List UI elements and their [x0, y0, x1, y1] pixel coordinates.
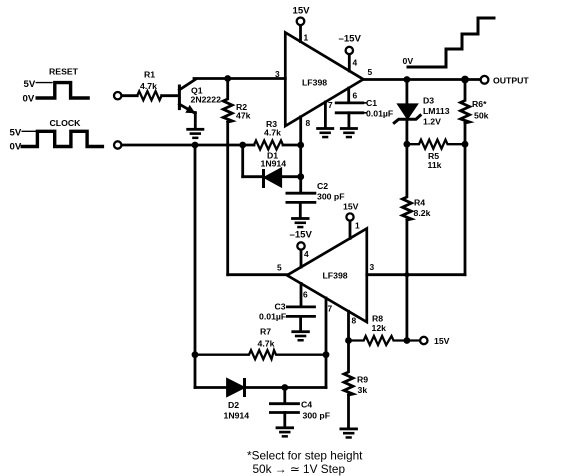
zener D3 bottom lead — [405, 120, 408, 144]
diode D1 1N914 triangle — [266, 169, 281, 186]
terminal: RESET input — [114, 92, 121, 99]
wire: D1 left lead — [243, 175, 262, 178]
node: D2 line / C4 — [281, 384, 288, 391]
terminal: 15V U1 — [297, 18, 305, 26]
terminal: -15V U1 — [346, 47, 353, 54]
capacitor C2 300pF plates — [287, 193, 315, 202]
svg-text:4: 4 — [304, 249, 309, 259]
node: clock / long vertical — [192, 142, 199, 149]
diode D2 1N914 triangle — [228, 380, 244, 396]
wire: C4 top lead — [283, 388, 286, 403]
resistor R5 11k — [407, 140, 465, 149]
svg-text:5V: 5V — [24, 79, 36, 90]
svg-text:0.01µF: 0.01µF — [366, 109, 393, 119]
svg-text:2N2222: 2N2222 — [191, 95, 222, 105]
label dash 0.01uF — [363, 112, 366, 114]
svg-text:8: 8 — [352, 316, 357, 326]
svg-text:CLOCK: CLOCK — [50, 118, 82, 128]
wire: pin8 junction down to D1 and C2 — [299, 145, 302, 192]
node: D3 / R5 — [404, 141, 411, 148]
node: clock / D1 branch — [239, 142, 246, 149]
wire: D2 right lead to U2 pin7 vertical — [246, 386, 326, 389]
capacitor C1 0.01uF plates — [336, 103, 363, 113]
resistor R2 47k vertical — [223, 79, 232, 123]
wire: C2 bottom plate to ground — [299, 202, 302, 217]
svg-text:8.2k: 8.2k — [414, 208, 431, 218]
svg-text:C2: C2 — [317, 181, 328, 191]
transistor Q1 emitter lead — [179, 104, 195, 113]
wire: R9 to ground — [347, 395, 350, 428]
node: output / R6 — [461, 76, 469, 84]
svg-text:R4: R4 — [414, 198, 425, 208]
svg-text:R9: R9 — [357, 375, 368, 385]
svg-text:RESET: RESET — [49, 67, 79, 77]
diode D2 1N914 cathode bar — [243, 380, 246, 396]
staircase output waveform — [408, 18, 494, 67]
wire: U2 pin 7 down through R7 line to D2 line — [325, 298, 328, 388]
wire: C1 bottom plate to ground — [347, 113, 350, 127]
svg-text:300 pF: 300 pF — [317, 192, 345, 202]
wire: C3 bottom plate to ground — [299, 316, 302, 330]
svg-text:1.2V: 1.2V — [423, 117, 441, 127]
wire: U2 pin 3 line to right vertical — [367, 273, 465, 276]
node: R7 right / U2 pin7 — [323, 351, 330, 358]
op-amp U2 LF398 triangle (mirrored) — [287, 229, 367, 323]
wire: top wire Q1 collector to op-amp U1 pin 3 — [194, 77, 285, 80]
zener D3 cathode bar — [394, 115, 420, 122]
ground (R9) — [340, 428, 358, 439]
svg-text:1: 1 — [304, 33, 309, 43]
wire: U1 pin 8 down to clock junction — [299, 117, 302, 145]
terminal: 15V U2 — [346, 213, 353, 220]
svg-text:12k: 12k — [372, 323, 387, 333]
wire: R2 down to op-amp U2 output line (crosses clock line) — [226, 122, 229, 275]
wire: U1 pin 1 from 15V terminal — [299, 26, 302, 41]
wire: U1 output to OUTPUT terminal — [363, 78, 480, 81]
node: U2 pin8 / R8 / R9 — [345, 337, 352, 344]
svg-text:5V: 5V — [10, 128, 22, 139]
wire: U2 pin 4 from -15V terminal — [300, 251, 303, 267]
svg-text:–15V: –15V — [290, 230, 313, 241]
wire: U1 pin 6 to C1 — [347, 88, 350, 102]
wire: U1 pin 7 to ground — [324, 102, 327, 127]
node: R5 / R6 — [462, 141, 469, 148]
svg-text:4.7k: 4.7k — [140, 81, 157, 91]
svg-text:47k: 47k — [236, 111, 251, 121]
svg-text:3: 3 — [275, 69, 280, 79]
node: R8 / R4 vertical — [404, 337, 411, 344]
wire: clock input line — [122, 144, 254, 147]
wire: U2 pin 8 down to R8 line — [347, 311, 350, 340]
svg-text:R7: R7 — [260, 327, 271, 337]
svg-text:0V: 0V — [403, 56, 414, 66]
clock waveform — [22, 131, 102, 146]
diode D1 1N914 cathode bar — [262, 171, 265, 187]
resistor R7 4.7k line — [195, 350, 326, 359]
svg-text:D3: D3 — [423, 96, 434, 106]
svg-text:C4: C4 — [301, 400, 312, 410]
node: output / D3 — [404, 76, 411, 83]
svg-text:C3: C3 — [275, 302, 286, 312]
svg-text:7: 7 — [328, 304, 333, 314]
wire: U2 pin 5 output line to R2 feedback — [228, 273, 287, 276]
svg-text:15V: 15V — [434, 336, 450, 346]
svg-text:1N914: 1N914 — [224, 411, 250, 421]
resistor R9 3k vertical — [344, 341, 353, 396]
wire: U2 pin 6 to C3 — [300, 283, 303, 305]
wire: C4 bottom plate to ground — [283, 413, 286, 427]
wire: R1 to Q1 base — [162, 94, 178, 97]
zener D3 LM113 triangle — [399, 105, 416, 118]
svg-text:300 pF: 300 pF — [303, 411, 331, 421]
ground (C4) — [276, 426, 294, 437]
ground (C2) — [291, 217, 309, 228]
svg-text:1N914: 1N914 — [261, 159, 287, 169]
node: R7 left / long vertical — [192, 351, 199, 358]
transistor Q1 collector lead — [179, 79, 196, 90]
svg-text:50k → ≃ 1V Step: 50k → ≃ 1V Step — [253, 462, 346, 476]
resistor R4 8.2k vertical — [402, 144, 411, 220]
node: junction top wire / R2 — [224, 75, 231, 82]
svg-text:R1: R1 — [144, 70, 155, 80]
reset waveform label 5V line — [36, 82, 52, 84]
terminal: CLOCK input — [114, 141, 121, 148]
transistor Q1 emitter vertical to ground — [194, 113, 197, 129]
node: R3 / U1 pin 8 — [297, 142, 304, 149]
svg-text:7: 7 — [328, 100, 333, 110]
svg-text:0V: 0V — [23, 94, 35, 105]
transistor Q1 emitter arrow — [185, 105, 195, 113]
label dash C1 — [363, 102, 366, 104]
svg-text:11k: 11k — [428, 160, 442, 170]
capacitor C4 300pF plates — [270, 404, 298, 413]
svg-text:D2: D2 — [228, 400, 239, 410]
wire: vertical from clock junction down to D1 — [241, 145, 244, 177]
svg-text:15V: 15V — [293, 6, 311, 17]
svg-text:LF398: LF398 — [302, 78, 327, 88]
zener D3 top lead — [405, 80, 408, 106]
wire: R6 bottom to R5 junction and down to U2 pin3 line — [464, 123, 467, 275]
svg-text:R6*: R6* — [472, 99, 487, 109]
op-amp U1 LF398 triangle — [285, 33, 363, 127]
svg-text:0.01µF: 0.01µF — [259, 312, 286, 322]
ground (C1) — [340, 127, 358, 138]
ground (U1 pin 7) — [316, 127, 334, 138]
svg-text:*Select for step height: *Select for step height — [247, 449, 363, 463]
clock waveform label 5V line — [22, 130, 37, 132]
ground (C3) — [291, 330, 309, 341]
terminal: -15V U2 — [297, 242, 304, 249]
wire: R3 to pin8 junction — [283, 144, 301, 147]
svg-text:LF398: LF398 — [323, 271, 348, 281]
svg-text:15V: 15V — [343, 202, 359, 212]
transistor Q1 base bar — [178, 86, 181, 109]
svg-text:5: 5 — [277, 263, 282, 273]
wire: D1 right lead — [281, 175, 301, 178]
node: D1 / C2 branch — [297, 173, 304, 180]
resistor R8 12k line — [349, 336, 420, 345]
svg-text:8: 8 — [306, 118, 311, 128]
svg-text:6: 6 — [353, 91, 358, 101]
svg-text:R8: R8 — [372, 314, 383, 324]
terminal: 15V right (R8) — [420, 337, 427, 344]
svg-text:6: 6 — [303, 290, 308, 300]
svg-text:3k: 3k — [358, 385, 368, 395]
svg-text:4: 4 — [353, 58, 358, 68]
wire: D2 left lead — [195, 386, 228, 389]
capacitor C3 0.01uF plates — [287, 307, 314, 317]
svg-text:0V: 0V — [10, 142, 22, 153]
resistor R3 4.7k — [254, 141, 283, 150]
svg-text:50k: 50k — [474, 111, 489, 121]
svg-text:LM113: LM113 — [423, 106, 450, 116]
svg-text:5: 5 — [368, 67, 373, 77]
svg-text:4.7k: 4.7k — [264, 128, 281, 138]
ground (Q1 emitter) — [186, 128, 204, 139]
wire: U1 pin 4 from -15V terminal — [348, 55, 351, 71]
wire: long vertical from clock junction down to D2 line — [194, 145, 197, 388]
node: R4 / U2 pin3 line — [404, 272, 409, 277]
svg-text:OUTPUT: OUTPUT — [493, 76, 529, 86]
wire: U2 pin 1 from 15V terminal — [349, 221, 352, 238]
wire: reset input to R1 — [122, 94, 137, 97]
svg-text:4.7k: 4.7k — [258, 339, 275, 349]
wire: R4 down through U2 pin3 line to R8 junction — [405, 220, 408, 341]
svg-text:–15V: –15V — [339, 34, 362, 45]
reset waveform — [37, 83, 88, 98]
svg-text:C1: C1 — [366, 98, 377, 108]
resistor R6 50k vertical — [461, 80, 470, 124]
svg-text:3: 3 — [370, 262, 375, 272]
terminal: OUTPUT — [481, 76, 489, 84]
resistor R1 4.7k — [137, 91, 161, 100]
svg-text:1: 1 — [355, 221, 360, 231]
